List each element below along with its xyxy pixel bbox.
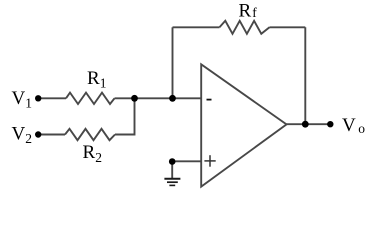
svg-text:R2: R2 bbox=[83, 142, 102, 165]
svg-text:V1: V1 bbox=[12, 88, 32, 111]
wire to ground bbox=[171, 161, 173, 178]
ground node junction bbox=[169, 158, 176, 165]
svg-text:V2: V2 bbox=[12, 124, 32, 147]
wire feedback top left bbox=[173, 26, 220, 28]
wire feedback left vertical bbox=[172, 27, 174, 98]
output node junction bbox=[302, 121, 309, 128]
node B feedback junction bbox=[169, 95, 176, 102]
wire R2 to node A bbox=[115, 98, 135, 134]
ground bbox=[164, 179, 180, 186]
wire output bbox=[287, 123, 331, 125]
svg-text:Vo: Vo bbox=[342, 115, 365, 136]
wire feedback top right bbox=[270, 26, 306, 28]
resistor R2 bbox=[65, 129, 115, 140]
terminal Vo bbox=[327, 121, 333, 127]
wire V1 to R1 bbox=[38, 97, 66, 99]
wire R1 to op-amp inverting input bbox=[115, 97, 202, 99]
op-amp minus input label bbox=[207, 99, 212, 101]
resistor R1 bbox=[66, 93, 115, 104]
node A junction bbox=[131, 95, 138, 102]
terminal V1 bbox=[35, 95, 41, 101]
op-amp U1 bbox=[201, 64, 286, 186]
terminal V2 bbox=[35, 131, 41, 137]
wire feedback right vertical bbox=[304, 27, 306, 124]
wire V2 to R2 bbox=[38, 134, 65, 136]
resistor Rf bbox=[220, 21, 270, 34]
svg-text:Rf: Rf bbox=[239, 1, 258, 22]
op-amp plus input label bbox=[204, 155, 215, 167]
wire non-inverting input bbox=[172, 160, 201, 162]
svg-text:R1: R1 bbox=[87, 68, 106, 91]
